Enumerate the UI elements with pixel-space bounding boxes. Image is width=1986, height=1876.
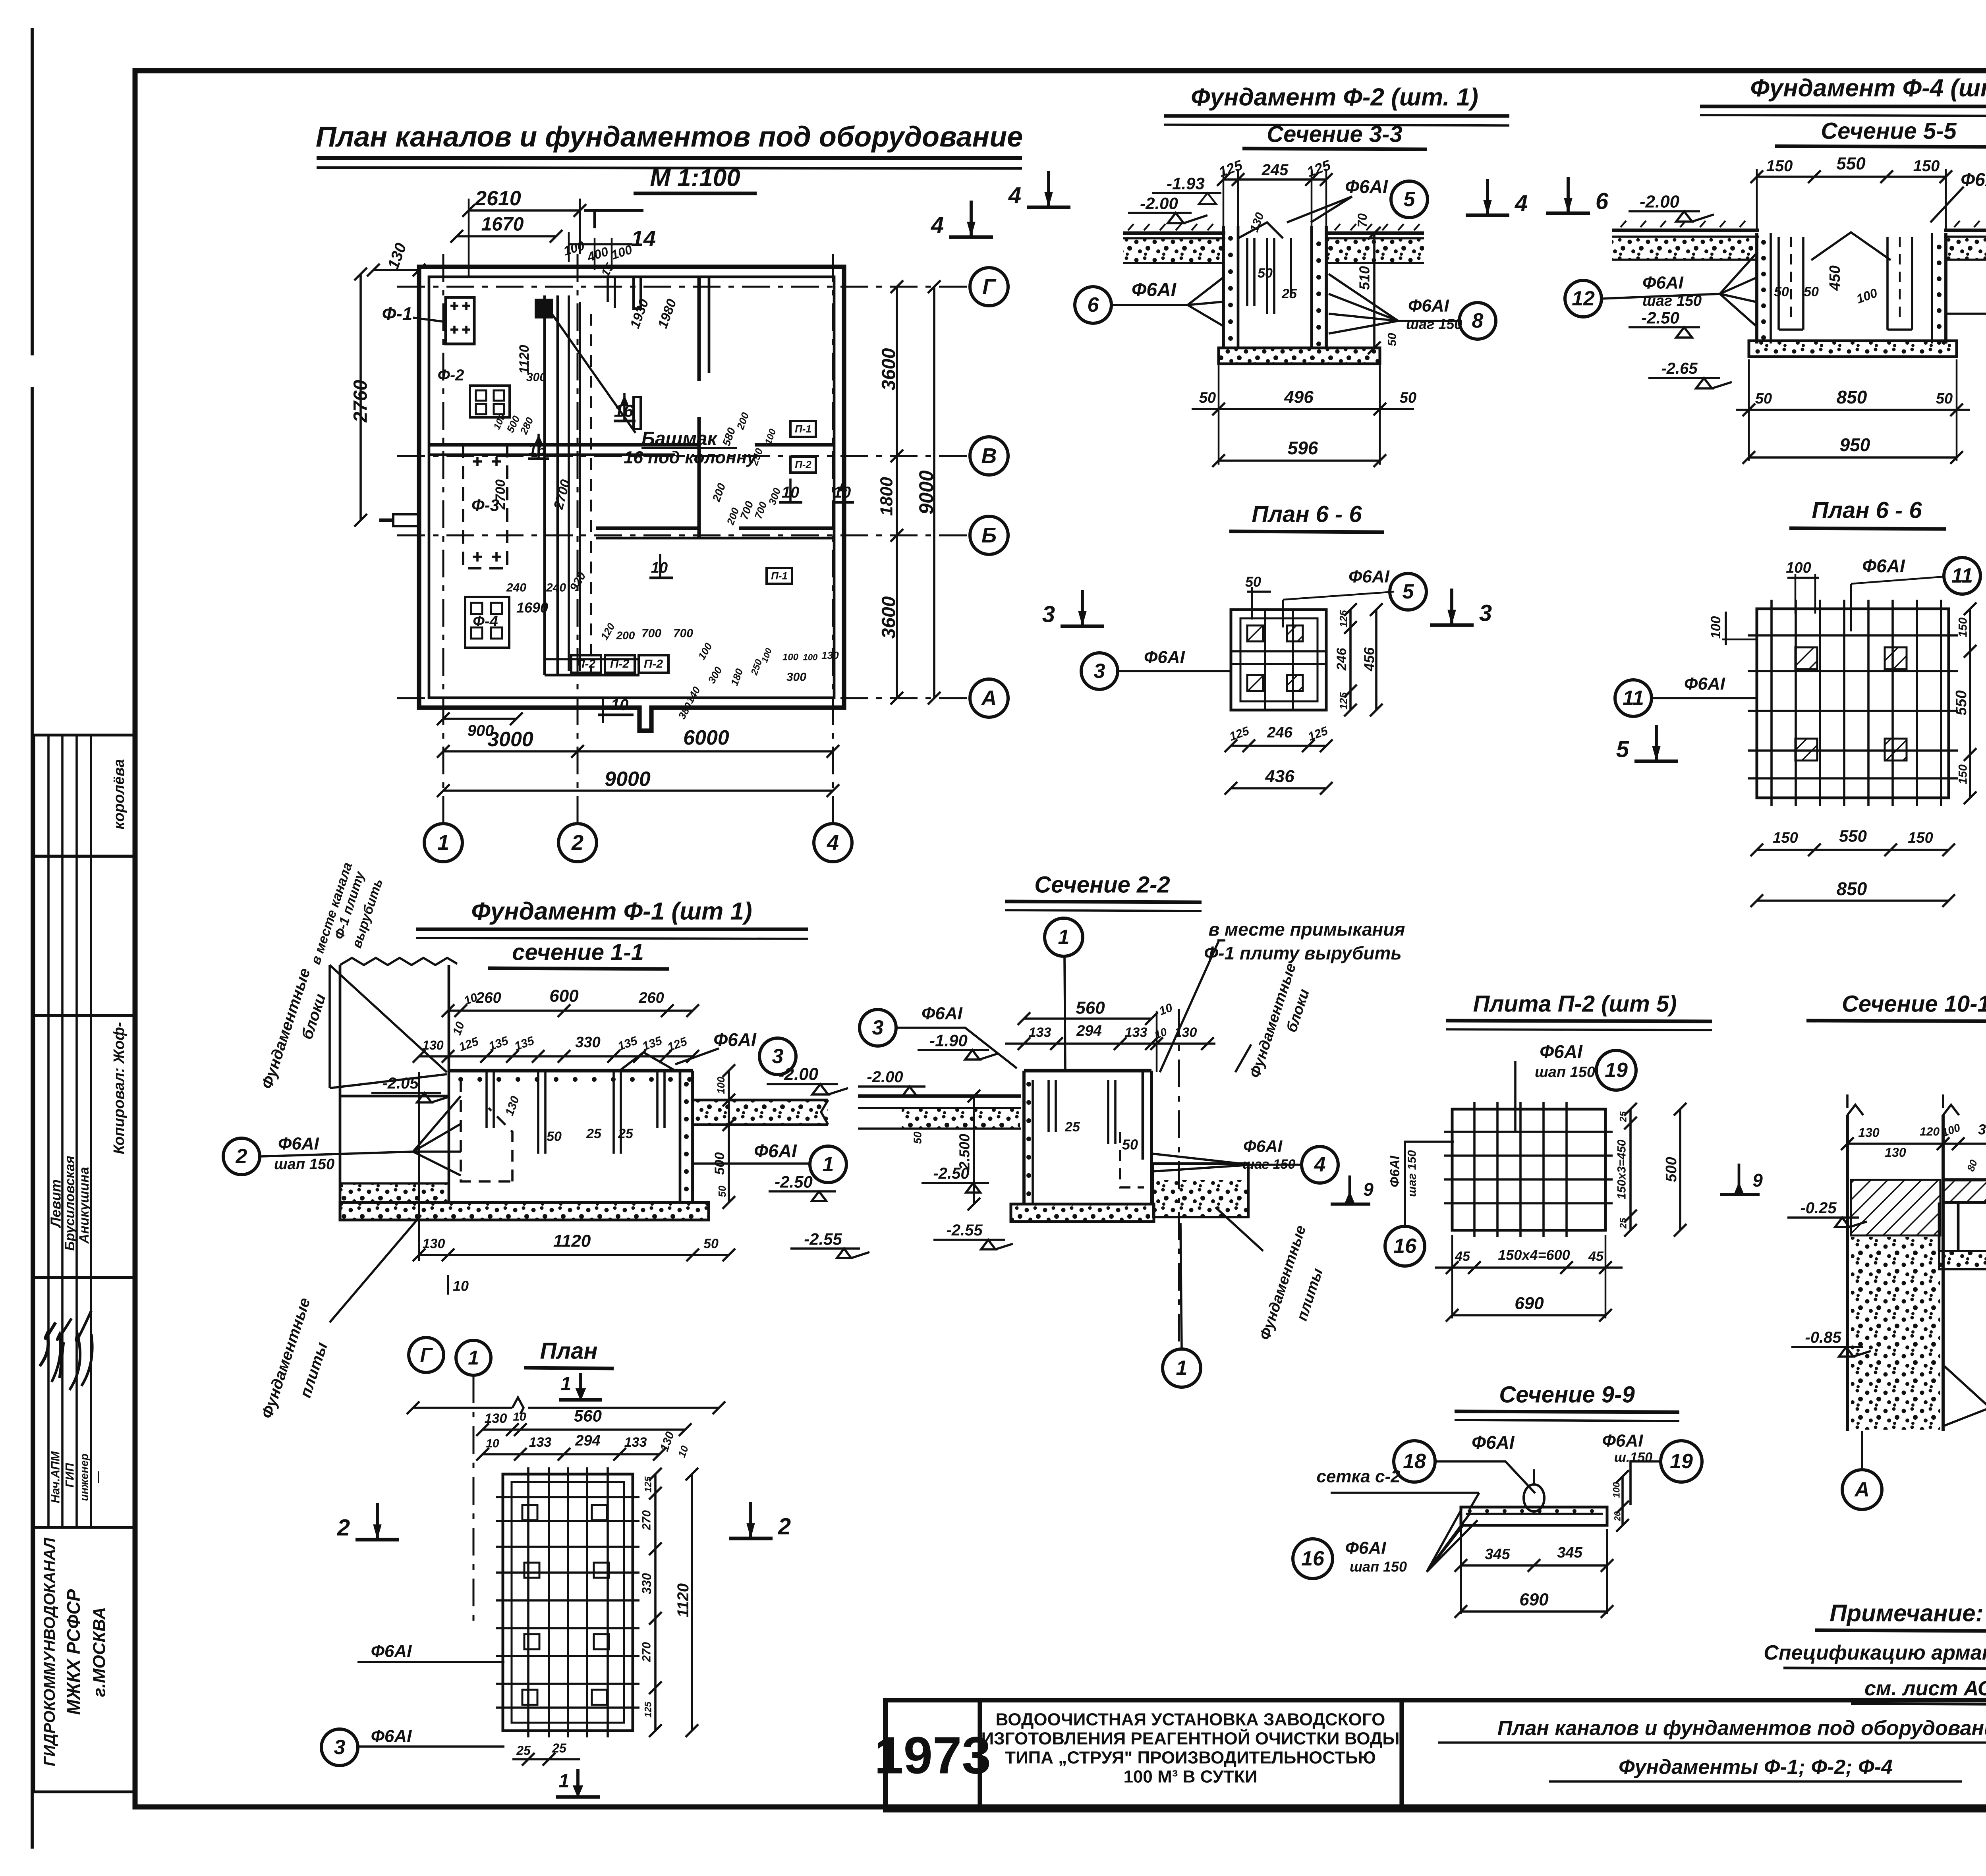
- svg-text:Ф6АI: Ф6АI: [1602, 1431, 1644, 1451]
- sec2-2 top dim 560 10: [1024, 1017, 1151, 1020]
- sec3-3 wall rebar dots: [1228, 236, 1233, 241]
- planLL section mark 1 top: [579, 1373, 582, 1395]
- svg-text:Сечение 3-3: Сечение 3-3: [1267, 122, 1402, 147]
- svg-text:-2.65: -2.65: [1661, 360, 1698, 377]
- sec9-9 lifting hook: [1524, 1484, 1544, 1511]
- svg-text:Фундамент Ф-4 (шт 1): Фундамент Ф-4 (шт 1): [1750, 75, 1986, 102]
- svg-text:16 под колонну: 16 под колонну: [624, 448, 757, 467]
- svg-text:330: 330: [575, 1034, 600, 1051]
- svg-text:П-1: П-1: [795, 423, 811, 435]
- foundation F-3 dashed rect: [463, 445, 507, 568]
- svg-text:50: 50: [1755, 390, 1772, 407]
- sec9-9 slab: [1461, 1507, 1607, 1525]
- svg-text:300: 300: [786, 671, 806, 684]
- svg-text:246: 246: [1334, 648, 1349, 671]
- svg-text:120: 120: [1920, 1125, 1940, 1139]
- svg-text:-2.50: -2.50: [1641, 309, 1679, 327]
- svg-text:550: 550: [1953, 690, 1970, 715]
- svg-text:сечение 1-1: сечение 1-1: [512, 940, 644, 965]
- foundation F-1 rect: [446, 297, 474, 344]
- svg-text:Ф6АI: Ф6АI: [1348, 567, 1390, 587]
- svg-text:50: 50: [1386, 333, 1399, 346]
- svg-text:2: 2: [571, 831, 583, 855]
- svg-text:Ф6АI: Ф6АI: [1144, 648, 1185, 667]
- sec3-3 top V rebar mark: [1238, 222, 1283, 238]
- svg-text:ГИП: ГИП: [64, 1463, 77, 1488]
- svg-text:Ф6АI: Ф6АI: [1684, 674, 1725, 694]
- sec2-2 section mark 9 right: [1348, 1175, 1351, 1203]
- svg-text:инженер: инженер: [78, 1453, 91, 1501]
- svg-text:Ф6АI: Ф6АI: [1387, 1155, 1403, 1187]
- planLL section mark 1 bottom: [576, 1769, 580, 1792]
- svg-text:П-2: П-2: [644, 658, 663, 671]
- svg-text:Ф6АI: Ф6АI: [1243, 1137, 1283, 1156]
- main plan inner wall B2 axis: [596, 527, 699, 530]
- sec2-2 bottom slab: [1011, 1204, 1154, 1222]
- svg-text:шап 150: шап 150: [274, 1156, 334, 1173]
- plan6-6a bottom dim 436: [1231, 787, 1326, 789]
- svg-text:План 6 - 6: План 6 - 6: [1812, 498, 1922, 523]
- stamp table column lines: [47, 735, 50, 1527]
- plan left small protrusion: [393, 514, 419, 526]
- svg-text:Г: Г: [420, 1344, 433, 1366]
- svg-text:1120: 1120: [517, 345, 532, 374]
- svg-text:100: 100: [1611, 1482, 1622, 1498]
- svg-text:550: 550: [1839, 827, 1867, 845]
- svg-text:150: 150: [1957, 618, 1970, 637]
- bashmak filled square in plan: [536, 300, 552, 317]
- svg-text:6: 6: [1088, 293, 1099, 317]
- svg-text:Ф-2: Ф-2: [438, 367, 464, 384]
- svg-text:1120: 1120: [553, 1231, 591, 1251]
- plitaP2 mesh horizontals: [1444, 1131, 1613, 1133]
- svg-text:-2.55: -2.55: [804, 1230, 842, 1249]
- svg-text:МЖКХ РСФСР: МЖКХ РСФСР: [63, 1589, 84, 1715]
- svg-text:1: 1: [1176, 1357, 1188, 1380]
- svg-text:50: 50: [1936, 390, 1953, 407]
- svg-text:50: 50: [1258, 266, 1273, 281]
- svg-text:200: 200: [616, 629, 635, 642]
- svg-text:ГИДРОКОММУНВОДОКАНАЛ: ГИДРОКОММУНВОДОКАНАЛ: [41, 1537, 58, 1766]
- svg-text:2700: 2700: [493, 479, 508, 510]
- svg-text:План: План: [540, 1338, 597, 1364]
- plan6-6a circle3 left leader: [1081, 653, 1118, 689]
- svg-text:133: 133: [624, 1435, 647, 1450]
- plan6-6b mesh grid horizontal bars: [1748, 634, 1958, 637]
- svg-text:9000: 9000: [915, 470, 937, 514]
- section mark 6 right: [1567, 177, 1570, 212]
- svg-text:Ф6АI: Ф6АI: [1862, 556, 1905, 576]
- svg-text:1120: 1120: [674, 1583, 692, 1617]
- svg-text:10: 10: [486, 1437, 499, 1450]
- svg-text:133: 133: [1029, 1025, 1051, 1040]
- svg-text:700: 700: [673, 627, 693, 640]
- svg-text:4: 4: [1515, 191, 1528, 216]
- section mark 4 top right of plan: [970, 201, 973, 235]
- sec2-2 box walls: [1024, 1069, 1151, 1073]
- sec10-10 wall upper hatch: [1851, 1180, 1940, 1235]
- sec1-1 box top line: [448, 1069, 693, 1073]
- svg-text:10: 10: [513, 1411, 526, 1424]
- svg-text:Сечение 9-9: Сечение 9-9: [1499, 1382, 1634, 1408]
- svg-text:3: 3: [1042, 602, 1055, 627]
- svg-text:4: 4: [1008, 183, 1021, 208]
- planLL mesh vertical bars: [527, 1467, 529, 1737]
- sec2-2 right blocks band: [1153, 1164, 1248, 1217]
- svg-text:6: 6: [1596, 189, 1609, 214]
- main plan inner vertical wall: [697, 277, 701, 381]
- plates P-1 marks right side: [790, 421, 816, 437]
- svg-text:3000: 3000: [487, 728, 533, 751]
- sec5-5 inner channels: [1779, 237, 1803, 330]
- svg-text:М 1:100: М 1:100: [650, 164, 740, 192]
- sec1-1 top dim row1: [448, 1009, 693, 1012]
- svg-text:шаг 150: шаг 150: [1406, 316, 1462, 332]
- svg-text:510: 510: [1356, 266, 1373, 290]
- svg-text:Ф6АI: Ф6АI: [371, 1642, 412, 1661]
- svg-text:50: 50: [703, 1236, 719, 1251]
- svg-text:500: 500: [712, 1152, 727, 1175]
- svg-text:125: 125: [1337, 692, 1349, 710]
- sec5-5 top V rebar mark: [1811, 232, 1891, 260]
- svg-text:Ф6АI: Ф6АI: [1132, 280, 1177, 301]
- svg-text:450: 450: [1827, 265, 1843, 291]
- svg-text:2610: 2610: [475, 187, 521, 210]
- svg-text:11: 11: [1951, 564, 1973, 587]
- svg-text:19: 19: [1605, 1059, 1628, 1082]
- sec2-2 left slab band: [858, 1094, 1021, 1098]
- svg-text:Ф6АI: Ф6АI: [754, 1141, 797, 1161]
- sec9-9 right rotated dims: [1621, 1476, 1624, 1525]
- sec2-2 dashed inner outline: [1120, 1132, 1144, 1187]
- svg-text:50: 50: [1774, 284, 1789, 299]
- svg-text:150: 150: [1957, 764, 1970, 784]
- svg-text:294: 294: [1076, 1023, 1101, 1039]
- sec9-9 dims 345 345: [1461, 1564, 1607, 1567]
- foundation F-4 rect: [465, 597, 509, 648]
- svg-text:4: 4: [1314, 1153, 1326, 1176]
- sec1-1 circle2 leader fan: [223, 1138, 260, 1175]
- svg-text:270: 270: [640, 1510, 653, 1531]
- svg-text:130: 130: [1885, 1145, 1906, 1160]
- svg-text:25: 25: [618, 1126, 634, 1141]
- planLL dim row 130 10 560: [483, 1428, 685, 1431]
- svg-text:Аникушина: Аникушина: [77, 1167, 92, 1244]
- svg-text:Ф6АI: Ф6АI: [371, 1727, 412, 1746]
- svg-text:Фундамент Ф-1 (шт 1): Фундамент Ф-1 (шт 1): [471, 898, 752, 925]
- svg-text:240: 240: [546, 581, 566, 594]
- svg-text:100: 100: [1786, 560, 1811, 576]
- svg-text:3: 3: [1094, 660, 1105, 683]
- plates P-2 row at plan bottom: [571, 655, 601, 673]
- svg-text:50: 50: [547, 1129, 562, 1144]
- plan6-6b section marks 5: [1655, 725, 1658, 760]
- sec1-1 hanging rebar pairs: [487, 1071, 665, 1154]
- svg-text:План каналов и фундаментов под: План каналов и фундаментов под оборудова…: [1497, 1717, 1986, 1740]
- planLL right rotated dim chain: [654, 1474, 657, 1731]
- svg-text:1690: 1690: [516, 600, 548, 616]
- svg-text:ТИПА „СТРУЯ" ПРОИЗВОДИТЕЛЬНОСТ: ТИПА „СТРУЯ" ПРОИЗВОДИТЕЛЬНОСТЬЮ: [1005, 1748, 1376, 1768]
- svg-text:100: 100: [803, 652, 818, 662]
- svg-text:700: 700: [641, 627, 661, 640]
- svg-text:А: А: [1854, 1478, 1870, 1501]
- svg-text:Ф6АI: Ф6АI: [278, 1134, 319, 1154]
- plan bottom dimension 9000: [443, 789, 833, 792]
- svg-text:в месте примыкания: в месте примыкания: [1208, 919, 1405, 940]
- sec3-3 left leader fan circle 6: [1075, 287, 1111, 323]
- sec1-1 rebar dots under top: [458, 1077, 463, 1082]
- plitaP2 grid outer: [1452, 1109, 1605, 1230]
- svg-text:300: 300: [526, 371, 546, 384]
- svg-text:1800: 1800: [877, 477, 896, 516]
- svg-text:150: 150: [1766, 157, 1793, 175]
- svg-text:Плита П-2 (шт 5): Плита П-2 (шт 5): [1473, 991, 1677, 1017]
- svg-text:А: А: [981, 686, 997, 710]
- title block frame: [885, 1700, 1986, 1810]
- svg-text:10: 10: [611, 696, 629, 714]
- svg-text:456: 456: [1361, 647, 1377, 672]
- sec5-5 floor slab right: [1944, 229, 1986, 232]
- plan6-6b anchor squares: [1795, 647, 1817, 669]
- svg-text:—: —: [91, 1471, 104, 1484]
- svg-text:1: 1: [561, 1374, 572, 1395]
- svg-text:3: 3: [872, 1016, 884, 1039]
- svg-text:2: 2: [778, 1514, 791, 1540]
- plan6-6b bottom dims 150 550 150: [1757, 849, 1949, 851]
- planLL axis circles G 1: [409, 1338, 444, 1372]
- svg-text:2: 2: [337, 1515, 350, 1541]
- plan axis dashdot lines: [397, 286, 970, 288]
- sec3-3 bottom slab: [1219, 348, 1380, 364]
- svg-text:496: 496: [1284, 388, 1314, 407]
- svg-text:-1.90: -1.90: [929, 1031, 968, 1050]
- svg-text:1670: 1670: [481, 214, 524, 235]
- svg-text:Сечение 5-5: Сечение 5-5: [1821, 118, 1957, 144]
- sec5-5 wall rebar dots: [1761, 240, 1766, 245]
- sec10-10 circle A: [1842, 1470, 1882, 1509]
- svg-text:11: 11: [1623, 687, 1644, 710]
- svg-text:50: 50: [1199, 390, 1216, 406]
- svg-text:Спецификацию арматуры: Спецификацию арматуры: [1764, 1641, 1986, 1664]
- svg-text:ш.150: ш.150: [1614, 1450, 1652, 1465]
- sec3-3 bottom dims 50 496 50: [1192, 408, 1414, 410]
- svg-text:Ф6АI: Ф6АI: [1345, 176, 1388, 197]
- svg-text:Сечение 10-10: Сечение 10-10: [1842, 991, 1986, 1017]
- plan6-6a inner grid: [1231, 650, 1326, 652]
- sec1-1 bottom slab: [340, 1202, 709, 1220]
- svg-text:25: 25: [1281, 286, 1297, 301]
- sec1-1 top V mark: [620, 1052, 675, 1071]
- svg-text:550: 550: [1836, 154, 1866, 174]
- plan right dimension chain: [896, 287, 898, 698]
- svg-text:6000: 6000: [683, 726, 729, 749]
- svg-text:-1.93: -1.93: [1167, 174, 1205, 193]
- svg-text:45: 45: [1588, 1249, 1604, 1264]
- sec2-2 wall rebar dots: [1026, 1082, 1031, 1087]
- planLL axis dash line vertical: [473, 1375, 475, 1628]
- svg-text:4: 4: [827, 831, 839, 855]
- plan6-6b outer square: [1757, 609, 1949, 798]
- svg-text:Б: Б: [981, 523, 997, 547]
- sec5-5 bottom dim 950: [1749, 456, 1957, 459]
- main plan channel horizontal bottom: [545, 674, 639, 677]
- svg-text:План 6 - 6: План 6 - 6: [1252, 502, 1362, 527]
- svg-text:125: 125: [643, 1476, 654, 1492]
- svg-text:-0.85: -0.85: [1805, 1329, 1841, 1346]
- svg-text:130: 130: [485, 1411, 507, 1426]
- svg-text:-2.50: -2.50: [775, 1173, 813, 1191]
- svg-text:25: 25: [516, 1743, 531, 1758]
- svg-text:50: 50: [1804, 284, 1819, 299]
- sec5-5 bottom dims 50 850 50: [1736, 409, 1970, 411]
- svg-text:50: 50: [1245, 574, 1261, 590]
- svg-text:245: 245: [1262, 161, 1289, 179]
- svg-text:45: 45: [1455, 1249, 1470, 1264]
- svg-text:345: 345: [1557, 1544, 1582, 1561]
- svg-text:850: 850: [1837, 878, 1867, 899]
- svg-text:3: 3: [1479, 600, 1492, 626]
- svg-text:1: 1: [1058, 926, 1070, 949]
- svg-text:100 М³ В СУТКИ: 100 М³ В СУТКИ: [1123, 1767, 1257, 1787]
- svg-text:Фундамент Ф-2 (шт. 1): Фундамент Ф-2 (шт. 1): [1191, 84, 1478, 111]
- svg-text:50: 50: [1122, 1137, 1138, 1153]
- sec1-1 right wall: [679, 1071, 682, 1202]
- svg-text:125: 125: [1337, 610, 1349, 627]
- svg-text:133: 133: [1125, 1025, 1148, 1040]
- sec3-3 floor slab left: [1123, 232, 1225, 235]
- sec5-5 top dims 150 550 150: [1757, 176, 1946, 178]
- sheet outer left edge line: [31, 28, 34, 355]
- plan6-6b mesh grid vertical bars: [1770, 600, 1773, 806]
- plitaP2 section mark 9 right: [1738, 1164, 1741, 1193]
- svg-text:294: 294: [575, 1432, 600, 1449]
- svg-text:3600: 3600: [879, 348, 900, 390]
- svg-text:150: 150: [1913, 157, 1940, 175]
- svg-text:Ф6АI: Ф6АI: [1408, 296, 1449, 316]
- svg-text:130: 130: [1858, 1125, 1880, 1140]
- section mark 4 right of sec3-3: [1486, 179, 1489, 214]
- svg-text:шап 150: шап 150: [1350, 1559, 1407, 1575]
- svg-text:2: 2: [236, 1145, 247, 1168]
- svg-text:25: 25: [1618, 1111, 1629, 1122]
- svg-text:Брусиловская: Брусиловская: [62, 1156, 77, 1251]
- svg-text:П-2: П-2: [795, 459, 811, 471]
- svg-text:150x4=600: 150x4=600: [1498, 1247, 1570, 1263]
- svg-text:260: 260: [638, 990, 664, 1006]
- plan6-6b circle11 left: [1615, 680, 1652, 716]
- sec5-5 circle12 leader fan: [1565, 280, 1602, 317]
- svg-text:П-2: П-2: [576, 658, 596, 671]
- svg-text:900: 900: [468, 722, 494, 739]
- svg-text:125: 125: [643, 1701, 654, 1718]
- svg-text:100: 100: [715, 1077, 727, 1094]
- sec3-3 bottom dim 596: [1219, 459, 1380, 462]
- svg-text:2.500: 2.500: [956, 1134, 973, 1170]
- svg-text:300: 300: [1978, 1121, 1986, 1138]
- svg-text:3600: 3600: [879, 596, 900, 639]
- sec5-5 floor slab left: [1612, 229, 1759, 232]
- svg-text:План каналов и фундаментов: План каналов и фундаментов под оборудова…: [316, 121, 1023, 153]
- plitaP2 mesh verticals: [1473, 1102, 1476, 1237]
- sec5-5 bottom slab: [1749, 341, 1957, 357]
- plan6-6a section marks 3: [1081, 590, 1084, 625]
- svg-text:Башмак: Башмак: [641, 428, 718, 450]
- svg-text:5: 5: [1403, 580, 1414, 603]
- svg-text:130: 130: [1175, 1025, 1197, 1040]
- plitaP2 bottom dim 690: [1452, 1314, 1605, 1316]
- svg-text:-2.55: -2.55: [946, 1222, 983, 1239]
- svg-text:850: 850: [1837, 387, 1867, 407]
- left stamp table frame: [34, 735, 135, 1792]
- svg-text:Сечение 2-2: Сечение 2-2: [1034, 872, 1170, 898]
- svg-text:1: 1: [437, 831, 449, 855]
- svg-text:В: В: [981, 444, 997, 468]
- svg-text:270: 270: [640, 1642, 653, 1662]
- sec2-2 circle3 left: [860, 1009, 896, 1046]
- svg-text:г.МОСКВА: г.МОСКВА: [90, 1607, 109, 1697]
- svg-text:9000: 9000: [605, 768, 651, 791]
- plan6-6a bottom dims 125 246 125: [1231, 745, 1326, 747]
- sec1-1 right concrete band: [693, 1099, 828, 1102]
- svg-text:130: 130: [821, 649, 839, 661]
- svg-text:Нач.АПМ: Нач.АПМ: [49, 1451, 62, 1504]
- svg-text:246: 246: [1267, 724, 1292, 741]
- sec1-1 left wall blocks strip: [339, 965, 342, 1202]
- plan6-6a corner anchor squares: [1247, 625, 1263, 641]
- main plan outer walls: [419, 267, 844, 731]
- section mark 4 left of sec3-3: [1047, 171, 1050, 206]
- svg-text:8: 8: [1472, 309, 1484, 332]
- svg-text:-2.05: -2.05: [382, 1075, 419, 1092]
- sec2-2 hanging rebars: [1049, 1080, 1115, 1144]
- planLL circle3: [321, 1729, 358, 1766]
- plan bottom dimension 3000 6000: [443, 750, 833, 753]
- planLL section marks 2: [376, 1503, 379, 1538]
- plan bottom local dims 900 10: [443, 718, 516, 720]
- main plan channels vertical lines: [543, 295, 546, 675]
- svg-text:130: 130: [423, 1236, 445, 1251]
- svg-text:Копировал: Жоф-: Копировал: Жоф-: [111, 1022, 128, 1154]
- svg-text:500: 500: [1663, 1157, 1680, 1182]
- svg-text:133: 133: [529, 1435, 552, 1450]
- svg-text:Ф6АI: Ф6АI: [713, 1029, 757, 1050]
- svg-text:560: 560: [1076, 998, 1105, 1018]
- svg-text:18: 18: [1403, 1450, 1426, 1473]
- svg-text:16: 16: [1393, 1235, 1417, 1258]
- plan6-6a outer square: [1231, 610, 1326, 710]
- svg-text:-2.00: -2.00: [1640, 192, 1680, 212]
- svg-text:Ф6АI: Ф6АI: [922, 1004, 963, 1023]
- svg-text:1973: 1973: [874, 1726, 991, 1785]
- svg-text:Ф6АI: Ф6АI: [1642, 273, 1684, 293]
- sec1-1 right dim chain: [728, 1071, 730, 1202]
- sec3-3 floor slab right: [1325, 232, 1424, 235]
- svg-text:25: 25: [586, 1126, 602, 1141]
- sec10-10 wall verticals with break: [1847, 1115, 1943, 1431]
- sec9-9 left hatch fan: [1427, 1509, 1478, 1572]
- svg-text:436: 436: [1265, 767, 1294, 786]
- sec2-2 dim row 133 294 133 10 130: [1005, 1042, 1215, 1045]
- svg-text:1: 1: [823, 1153, 834, 1176]
- sec1-1 bottom dims: [419, 1254, 729, 1256]
- axis circles right: [970, 268, 1008, 306]
- svg-text:9: 9: [1752, 1170, 1763, 1191]
- plitaP2 circle16 left leader: [1385, 1226, 1425, 1266]
- svg-text:Ф6АI: Ф6АI: [1472, 1432, 1515, 1453]
- sec10-10 top dims: [1847, 1143, 1986, 1145]
- svg-text:950: 950: [1840, 434, 1870, 455]
- svg-text:П-2: П-2: [610, 658, 630, 671]
